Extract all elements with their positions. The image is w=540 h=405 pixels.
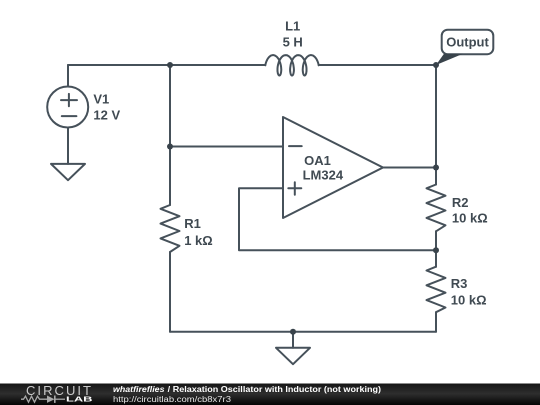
svg-text:http://circuitlab.com/cb8x7r3: http://circuitlab.com/cb8x7r3 [113, 394, 232, 403]
resistor R1 [161, 205, 180, 252]
svg-text:5 H: 5 H [283, 34, 303, 49]
ground under V1 [51, 164, 85, 180]
wire from node to op-amp inverting input [170, 146, 283, 148]
svg-text:/ Relaxation Oscillator with I: / Relaxation Oscillator with Inductor (n… [168, 384, 382, 393]
svg-text:V1: V1 [93, 92, 109, 107]
resistor R3 [427, 267, 446, 313]
V1 plus sign [61, 94, 77, 106]
wire top from inductor to output node [319, 64, 436, 66]
node junction output [433, 165, 439, 171]
footer bar [0, 383, 540, 405]
op-amp non-inverting input plus sign [288, 182, 301, 195]
svg-text:OA1: OA1 [304, 153, 331, 168]
wire op-amp output to node [383, 167, 436, 169]
ground stem bottom [292, 332, 294, 348]
svg-text:LAB: LAB [66, 394, 93, 403]
svg-text:10 kΩ: 10 kΩ [451, 292, 487, 307]
node junction output top [433, 62, 439, 68]
svg-text:12 V: 12 V [93, 108, 120, 123]
wire R1 bottom lead to bottom rail [169, 252, 171, 332]
bottom rail wire [170, 331, 436, 333]
svg-text:R3: R3 [451, 276, 468, 291]
node junction bottom ground [290, 329, 296, 335]
op-amp inverting input minus sign [289, 145, 302, 147]
svg-text:10 kΩ: 10 kΩ [452, 211, 488, 226]
svg-text:Output: Output [446, 35, 489, 50]
voltage source V1 circle [47, 87, 88, 128]
V1 bottom lead [67, 128, 69, 164]
node junction top-left [167, 62, 173, 68]
node junction inverting branch [167, 144, 173, 150]
wire R2 bottom to feedback node [435, 231, 437, 266]
feedback wire from divider node to op-amp plus input [239, 188, 436, 250]
V1 top lead [67, 65, 69, 87]
svg-text:LM324: LM324 [303, 168, 344, 183]
op-amp OA1 triangle [283, 117, 383, 218]
output flag pointer [436, 54, 463, 65]
svg-text:R2: R2 [452, 195, 469, 210]
node junction divider [433, 247, 439, 253]
CircuitLab logo squiggle resistor and diode [21, 395, 65, 402]
ground symbol bottom [276, 348, 310, 364]
svg-text:L1: L1 [285, 19, 300, 34]
wire left vertical x=170 [169, 65, 171, 205]
resistor R2 [427, 185, 446, 232]
output flag balloon box [442, 30, 494, 55]
V1 minus sign [62, 115, 77, 117]
svg-text:whatfireflies: whatfireflies [113, 384, 165, 393]
wire top from V1 to inductor [68, 64, 265, 66]
wire R3 bottom lead [435, 312, 437, 332]
svg-text:R1: R1 [184, 216, 201, 231]
inductor L1 coil [265, 55, 318, 75]
wire right vertical top (output node down) [435, 65, 437, 185]
svg-text:1 kΩ: 1 kΩ [184, 233, 213, 248]
